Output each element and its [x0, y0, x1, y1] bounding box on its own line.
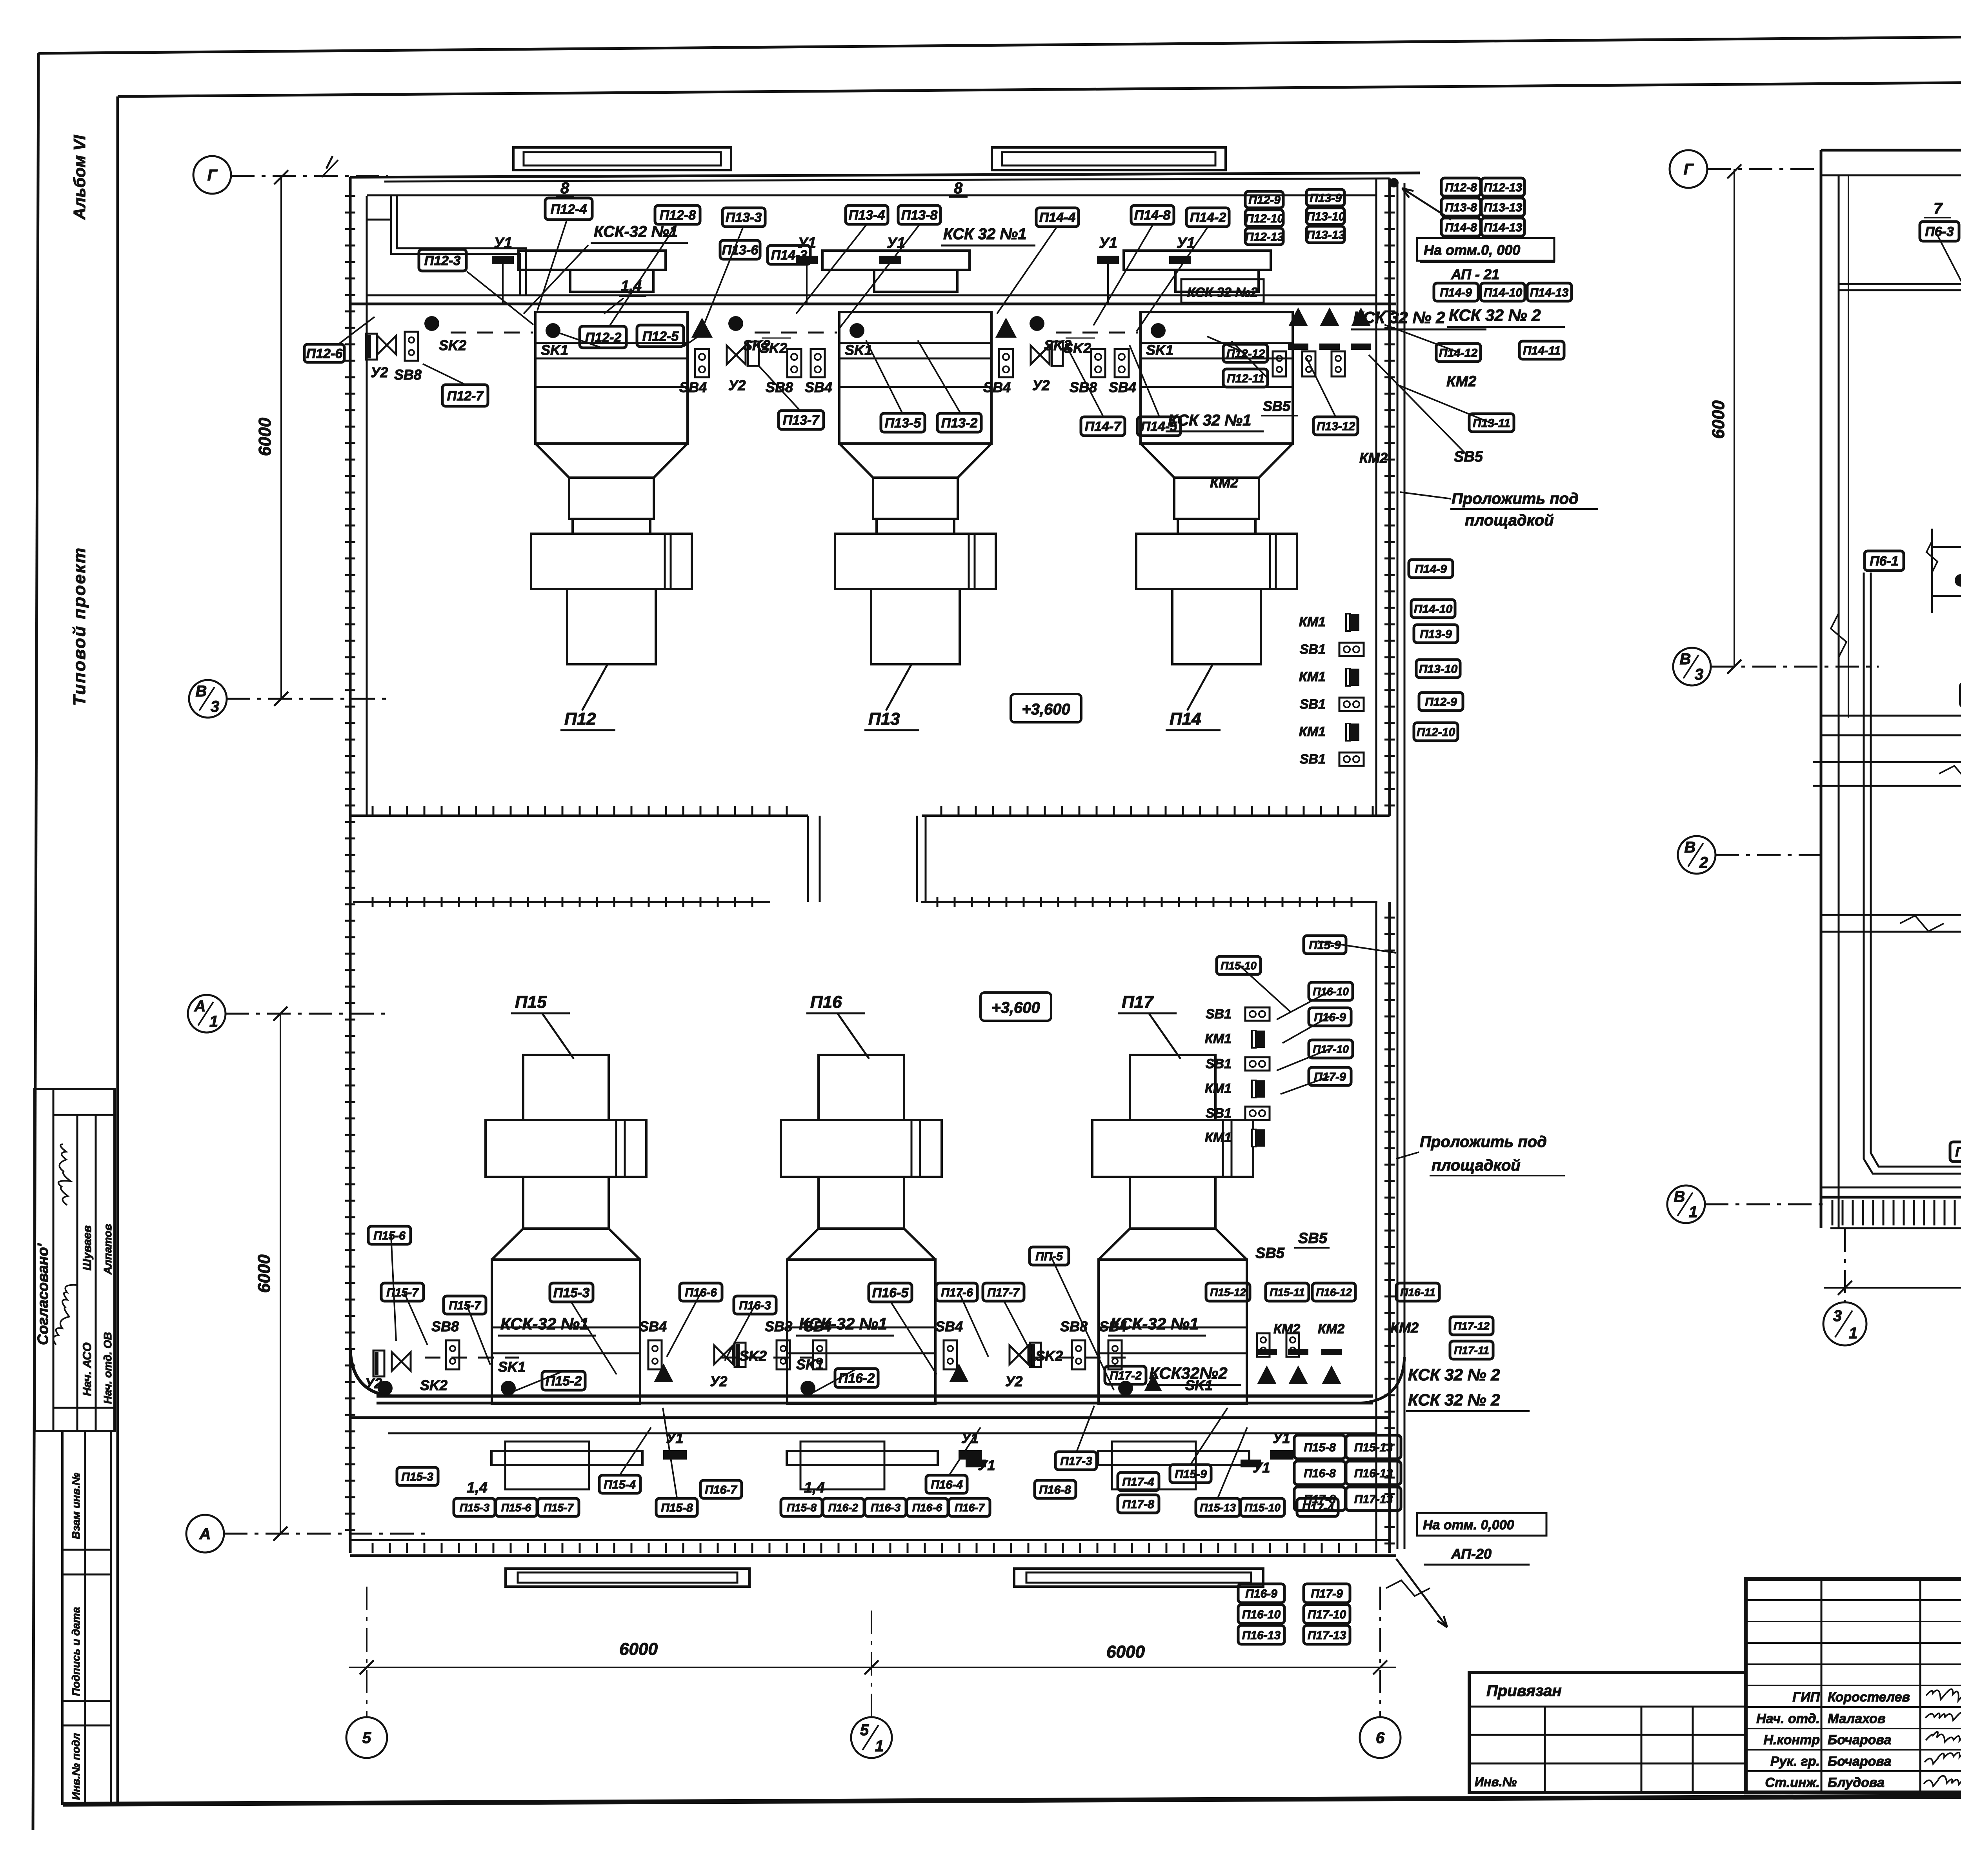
- svg-text:АП-20: АП-20: [1451, 1546, 1492, 1562]
- svg-text:П12-7: П12-7: [447, 389, 484, 404]
- svg-text:П14-12: П14-12: [1439, 347, 1478, 360]
- svg-text:У1: У1: [1177, 235, 1195, 251]
- svg-text:П13-2: П13-2: [941, 416, 978, 431]
- svg-text:SB4: SB4: [639, 1318, 667, 1334]
- svg-text:У2: У2: [1032, 377, 1050, 393]
- svg-text:Взам инв.№: Взам инв.№: [70, 1473, 82, 1539]
- svg-text:Согласовано': Согласовано': [35, 1243, 51, 1345]
- svg-text:SK2: SK2: [420, 1377, 448, 1393]
- svg-text:П15-3: П15-3: [401, 1471, 433, 1483]
- svg-text:У2: У2: [710, 1373, 727, 1389]
- svg-text:КМ1: КМ1: [1205, 1031, 1232, 1046]
- svg-text:П16-7: П16-7: [955, 1502, 985, 1514]
- svg-text:П17-6: П17-6: [941, 1286, 973, 1299]
- svg-text:SK1: SK1: [541, 342, 568, 358]
- svg-text:П13-8: П13-8: [901, 208, 938, 223]
- svg-text:6000: 6000: [255, 1254, 274, 1293]
- svg-text:П12-4: П12-4: [551, 202, 587, 217]
- svg-text:П17-13: П17-13: [1354, 1493, 1393, 1506]
- svg-text:П12-11: П12-11: [1227, 372, 1264, 385]
- svg-text:П12-13: П12-13: [1484, 181, 1523, 194]
- svg-text:П17-13: П17-13: [1308, 1629, 1346, 1642]
- svg-text:КМ2: КМ2: [1273, 1322, 1300, 1336]
- svg-text:У1: У1: [1099, 235, 1117, 251]
- svg-text:П15-10: П15-10: [1221, 960, 1257, 972]
- svg-text:КМ2: КМ2: [1210, 474, 1238, 491]
- svg-text:Бочарова: Бочарова: [1828, 1732, 1891, 1747]
- svg-text:У2: У2: [728, 377, 746, 393]
- svg-text:SB8: SB8: [394, 367, 422, 383]
- svg-text:SB4: SB4: [679, 379, 707, 395]
- svg-text:КСК 32 № 2: КСК 32 № 2: [1353, 308, 1445, 327]
- svg-text:SB5: SB5: [1298, 1230, 1328, 1247]
- svg-text:П16-8: П16-8: [1304, 1467, 1336, 1480]
- svg-text:П12: П12: [564, 709, 596, 729]
- svg-text:П16-3: П16-3: [871, 1502, 901, 1514]
- svg-text:А: А: [194, 998, 206, 1015]
- svg-text:П12-5: П12-5: [642, 329, 679, 344]
- svg-text:Малахов: Малахов: [1828, 1711, 1886, 1726]
- svg-text:1,4: 1,4: [467, 1480, 488, 1496]
- svg-text:Нач. отд. ОВ: Нач. отд. ОВ: [102, 1332, 114, 1404]
- svg-text:Типовой проект: Типовой проект: [70, 547, 89, 706]
- svg-text:П15-3: П15-3: [460, 1502, 490, 1514]
- svg-text:У2: У2: [1005, 1373, 1022, 1389]
- svg-text:SK2: SK2: [439, 337, 466, 353]
- svg-text:КМ1: КМ1: [1299, 724, 1326, 739]
- svg-text:На отм.0, 000: На отм.0, 000: [1424, 242, 1520, 258]
- svg-text:1,4: 1,4: [621, 278, 642, 294]
- svg-text:SK2: SK2: [739, 1348, 767, 1364]
- svg-text:П16-11: П16-11: [1400, 1286, 1435, 1298]
- svg-text:П12-10: П12-10: [1245, 212, 1284, 225]
- svg-text:3: 3: [1833, 1307, 1842, 1325]
- svg-text:П14-9: П14-9: [1440, 286, 1472, 299]
- svg-text:Инв.№: Инв.№: [1475, 1775, 1517, 1789]
- svg-text:ПП-5: ПП-5: [1035, 1250, 1063, 1263]
- svg-text:КСК-32 №1: КСК-32 №1: [500, 1314, 589, 1333]
- svg-text:КСК-32 №1: КСК-32 №1: [799, 1314, 887, 1333]
- svg-text:П17-9: П17-9: [1314, 1071, 1346, 1083]
- svg-text:+3,600: +3,600: [991, 999, 1040, 1016]
- svg-text:SB1: SB1: [1300, 697, 1326, 712]
- svg-text:У1: У1: [1273, 1430, 1290, 1446]
- svg-text:SB8: SB8: [431, 1318, 459, 1334]
- svg-text:П16-13: П16-13: [1354, 1467, 1393, 1480]
- svg-text:1: 1: [875, 1738, 884, 1755]
- svg-text:П14-3: П14-3: [771, 248, 808, 263]
- svg-text:П14-13: П14-13: [1484, 221, 1523, 234]
- svg-text:SB4: SB4: [805, 379, 832, 395]
- svg-text:Рук. гр.: Рук. гр.: [1770, 1754, 1820, 1769]
- svg-text:П15: П15: [515, 993, 547, 1012]
- svg-text:3: 3: [211, 698, 219, 715]
- svg-text:П13-10: П13-10: [1306, 210, 1345, 223]
- svg-text:П17-7: П17-7: [987, 1286, 1020, 1299]
- svg-text:П17-3: П17-3: [1060, 1455, 1092, 1468]
- svg-text:П15-11: П15-11: [1270, 1286, 1305, 1298]
- svg-text:КМ2: КМ2: [1390, 1320, 1419, 1336]
- svg-text:П17-2: П17-2: [1110, 1369, 1142, 1382]
- svg-text:П13-6: П13-6: [722, 243, 759, 258]
- svg-text:П16-12: П16-12: [1316, 1286, 1352, 1298]
- svg-text:Г: Г: [1684, 161, 1694, 178]
- svg-text:КСК32№2: КСК32№2: [1149, 1364, 1228, 1382]
- svg-text:КМ2: КМ2: [1446, 373, 1476, 390]
- svg-text:П16-8: П16-8: [1039, 1483, 1071, 1496]
- svg-text:1,4: 1,4: [804, 1480, 825, 1496]
- svg-text:Альбом VI: Альбом VI: [70, 135, 89, 220]
- svg-text:П14-4: П14-4: [1039, 210, 1076, 225]
- svg-text:6000: 6000: [255, 418, 275, 456]
- svg-text:П12-3: П12-3: [424, 253, 461, 268]
- svg-text:П16-2: П16-2: [839, 1371, 875, 1386]
- svg-text:В: В: [1674, 1188, 1685, 1205]
- svg-text:П15-4: П15-4: [604, 1478, 636, 1491]
- svg-text:площадкой: площадкой: [1432, 1157, 1521, 1174]
- svg-text:П17: П17: [1122, 993, 1154, 1012]
- svg-text:П12-12: П12-12: [1226, 347, 1265, 360]
- svg-text:SB5: SB5: [1255, 1245, 1285, 1262]
- svg-text:КСК-32 №1: КСК-32 №1: [594, 223, 678, 240]
- svg-text:П15-7: П15-7: [386, 1286, 419, 1299]
- svg-text:3: 3: [1695, 666, 1703, 683]
- svg-text:В: В: [196, 683, 207, 700]
- svg-text:П17-10: П17-10: [1308, 1608, 1346, 1621]
- svg-text:площадкой: площадкой: [1465, 512, 1554, 529]
- svg-text:6000: 6000: [1106, 1642, 1145, 1661]
- svg-text:П6-3: П6-3: [1925, 224, 1954, 239]
- svg-text:1: 1: [209, 1013, 218, 1030]
- svg-text:КМ2: КМ2: [1318, 1322, 1344, 1336]
- svg-text:П13-7: П13-7: [783, 413, 820, 428]
- svg-text:П15-6: П15-6: [373, 1229, 406, 1242]
- svg-text:П15-8: П15-8: [1304, 1441, 1336, 1454]
- svg-text:П16-6: П16-6: [912, 1502, 942, 1514]
- svg-text:5: 5: [860, 1721, 869, 1739]
- svg-text:П13-11: П13-11: [1473, 417, 1510, 430]
- svg-text:П12-9: П12-9: [1248, 194, 1281, 207]
- svg-text:КМ2: КМ2: [1359, 450, 1388, 466]
- svg-text:SK2: SK2: [1064, 340, 1091, 356]
- svg-text:П16-10: П16-10: [1313, 985, 1349, 998]
- svg-text:П14-10: П14-10: [1414, 603, 1453, 616]
- svg-text:SK1: SK1: [498, 1359, 526, 1375]
- svg-text:П15-3: П15-3: [553, 1285, 590, 1300]
- svg-text:Нач. отд.: Нач. отд.: [1756, 1711, 1820, 1726]
- svg-text:П15-6: П15-6: [501, 1502, 531, 1514]
- svg-text:КСК 32 № 2: КСК 32 № 2: [1408, 1391, 1500, 1409]
- svg-text:П13: П13: [868, 709, 900, 729]
- svg-text:П14-10: П14-10: [1484, 286, 1523, 299]
- svg-text:SB8: SB8: [1060, 1318, 1088, 1334]
- svg-text:П16-9: П16-9: [1245, 1587, 1277, 1600]
- svg-text:КМ1: КМ1: [1205, 1130, 1232, 1145]
- svg-text:КСК 32 №1: КСК 32 №1: [1168, 412, 1251, 429]
- svg-text:П13-5: П13-5: [885, 416, 922, 431]
- svg-text:Проложить под: Проложить под: [1452, 490, 1579, 507]
- svg-text:8: 8: [954, 180, 963, 197]
- svg-text:П15-7: П15-7: [449, 1299, 481, 1312]
- svg-text:П15-9: П15-9: [1309, 939, 1341, 952]
- svg-text:У1: У1: [666, 1430, 683, 1446]
- svg-text:КМ1: КМ1: [1205, 1081, 1232, 1096]
- svg-text:6: 6: [1376, 1729, 1385, 1747]
- svg-text:П16-13: П16-13: [1242, 1629, 1281, 1642]
- svg-text:SB1: SB1: [1206, 1007, 1232, 1022]
- svg-text:П17-4: П17-4: [1122, 1476, 1154, 1489]
- svg-text:П6-1: П6-1: [1955, 1145, 1961, 1160]
- svg-text:КСК-32 №1: КСК-32 №1: [1110, 1314, 1199, 1333]
- svg-text:П17-9: П17-9: [1311, 1587, 1343, 1600]
- svg-text:П14-9: П14-9: [1415, 563, 1447, 576]
- svg-text:Г: Г: [207, 167, 218, 184]
- svg-text:SK1: SK1: [1146, 342, 1173, 358]
- svg-text:П15-13: П15-13: [1200, 1502, 1236, 1514]
- svg-text:П15-9: П15-9: [1175, 1468, 1207, 1481]
- svg-text:SB4: SB4: [935, 1318, 963, 1334]
- svg-text:Блудова: Блудова: [1828, 1775, 1885, 1790]
- svg-text:SB5: SB5: [1263, 398, 1291, 414]
- svg-text:П13-13: П13-13: [1306, 229, 1345, 242]
- svg-text:П14-7: П14-7: [1085, 419, 1122, 434]
- svg-text:У1: У1: [961, 1430, 979, 1446]
- svg-text:6000: 6000: [619, 1640, 658, 1659]
- svg-text:П16-9: П16-9: [1314, 1011, 1346, 1024]
- svg-text:П13-9: П13-9: [1310, 192, 1342, 205]
- svg-text:П15-13: П15-13: [1354, 1441, 1393, 1454]
- svg-text:На отм. 0,000: На отм. 0,000: [1423, 1518, 1514, 1532]
- svg-text:1: 1: [1689, 1203, 1697, 1221]
- svg-text:Коростелев: Коростелев: [1828, 1690, 1910, 1705]
- svg-text:SB1: SB1: [1206, 1106, 1232, 1121]
- svg-text:Алпатов: Алпатов: [102, 1224, 114, 1275]
- svg-text:П16-4: П16-4: [931, 1478, 963, 1491]
- svg-text:П16-6: П16-6: [685, 1286, 717, 1299]
- svg-text:SK1: SK1: [845, 342, 872, 358]
- svg-text:6000: 6000: [1709, 400, 1728, 439]
- svg-text:П13-12: П13-12: [1317, 420, 1355, 433]
- svg-text:П13-3: П13-3: [726, 210, 762, 225]
- svg-text:5: 5: [362, 1729, 371, 1747]
- svg-text:П15-8: П15-8: [661, 1502, 693, 1514]
- svg-text:Привязан: Привязан: [1486, 1682, 1562, 1700]
- svg-text:П13-9: П13-9: [1420, 628, 1452, 641]
- svg-text:SB1: SB1: [1300, 642, 1326, 657]
- svg-text:2: 2: [1699, 854, 1708, 871]
- svg-text:П16-5: П16-5: [872, 1285, 909, 1300]
- svg-text:П12-13: П12-13: [1245, 231, 1284, 244]
- svg-text:П15-8: П15-8: [787, 1502, 817, 1514]
- svg-text:1: 1: [1849, 1325, 1857, 1342]
- svg-text:КСК 32 № 2: КСК 32 № 2: [1408, 1365, 1500, 1384]
- svg-text:П16-2: П16-2: [828, 1502, 859, 1514]
- svg-text:П17-8: П17-8: [1122, 1498, 1154, 1511]
- svg-text:П16: П16: [810, 993, 842, 1012]
- svg-text:П15-2: П15-2: [546, 1374, 582, 1389]
- svg-text:КСК 32 №2: КСК 32 №2: [1187, 285, 1258, 300]
- svg-text:Проложить под: Проложить под: [1420, 1133, 1547, 1151]
- svg-text:SB8: SB8: [766, 379, 793, 395]
- svg-text:Подпись и дата: Подпись и дата: [70, 1607, 82, 1696]
- svg-text:П14-8: П14-8: [1445, 221, 1477, 234]
- svg-text:КМ1: КМ1: [1299, 669, 1326, 684]
- svg-text:Шуваев: Шуваев: [81, 1225, 94, 1271]
- svg-text:SB8: SB8: [765, 1318, 792, 1334]
- svg-text:У1: У1: [887, 235, 905, 251]
- svg-text:П16-10: П16-10: [1242, 1608, 1281, 1621]
- svg-text:8: 8: [560, 180, 569, 197]
- svg-text:7: 7: [1934, 200, 1943, 217]
- svg-text:П15-7: П15-7: [544, 1502, 574, 1514]
- svg-text:SB5: SB5: [1454, 449, 1483, 465]
- svg-text:П15-12: П15-12: [1210, 1286, 1246, 1298]
- svg-text:П13-10: П13-10: [1419, 663, 1458, 676]
- svg-text:П14-2: П14-2: [1190, 210, 1226, 225]
- svg-text:SK2: SK2: [1035, 1348, 1063, 1364]
- svg-text:АП - 21: АП - 21: [1451, 266, 1499, 282]
- svg-text:П16-7: П16-7: [705, 1483, 737, 1496]
- svg-text:П6-1: П6-1: [1870, 554, 1899, 569]
- svg-text:П12-8: П12-8: [1445, 181, 1477, 194]
- svg-text:П12-6: П12-6: [306, 346, 343, 361]
- svg-text:В: В: [1680, 651, 1691, 668]
- svg-text:П16-3: П16-3: [739, 1299, 771, 1312]
- svg-text:П14-8: П14-8: [1134, 208, 1171, 223]
- svg-text:Бочарова: Бочарова: [1828, 1754, 1891, 1769]
- svg-text:SB4: SB4: [1109, 379, 1136, 395]
- svg-text:КСК 32 № 2: КСК 32 № 2: [1449, 306, 1541, 324]
- svg-text:SK2: SK2: [760, 340, 787, 356]
- svg-text:А: А: [199, 1525, 211, 1543]
- svg-text:Ст.инж.: Ст.инж.: [1765, 1775, 1820, 1790]
- svg-text:SK1: SK1: [796, 1356, 824, 1372]
- svg-text:П12-2: П12-2: [585, 330, 622, 345]
- svg-text:П17-12: П17-12: [1453, 1320, 1490, 1332]
- svg-text:КМ1: КМ1: [1299, 614, 1326, 629]
- svg-text:Н.контр: Н.контр: [1763, 1732, 1820, 1747]
- svg-text:П17-11: П17-11: [1454, 1344, 1489, 1356]
- svg-text:П17-10: П17-10: [1313, 1043, 1349, 1055]
- svg-text:П12-8: П12-8: [660, 208, 696, 223]
- svg-text:П14-11: П14-11: [1523, 344, 1561, 357]
- svg-text:П15-10: П15-10: [1244, 1502, 1281, 1514]
- svg-text:SB1: SB1: [1206, 1056, 1232, 1071]
- svg-text:У2: У2: [371, 364, 388, 380]
- svg-text:П12-9: П12-9: [1425, 696, 1457, 709]
- svg-text:П13-13: П13-13: [1484, 201, 1523, 214]
- svg-text:П12-10: П12-10: [1417, 726, 1455, 739]
- svg-text:КСК 32 №1: КСК 32 №1: [943, 225, 1026, 243]
- svg-text:П14: П14: [1170, 709, 1201, 729]
- svg-text:У1: У1: [494, 235, 512, 251]
- svg-text:SB4: SB4: [983, 379, 1011, 395]
- svg-text:П13-8: П13-8: [1445, 201, 1477, 214]
- svg-text:+3,600: +3,600: [1022, 701, 1070, 718]
- svg-text:SB8: SB8: [1070, 379, 1097, 395]
- svg-text:П13-4: П13-4: [849, 208, 885, 223]
- svg-text:SB1: SB1: [1300, 752, 1326, 767]
- svg-text:П17-8: П17-8: [1304, 1493, 1336, 1506]
- svg-text:ГИП: ГИП: [1792, 1690, 1820, 1705]
- svg-text:В: В: [1684, 839, 1696, 856]
- svg-text:Инв.№ подл: Инв.№ подл: [70, 1733, 82, 1800]
- svg-text:П14-13: П14-13: [1530, 286, 1569, 299]
- svg-text:Нач. АСО: Нач. АСО: [81, 1342, 94, 1396]
